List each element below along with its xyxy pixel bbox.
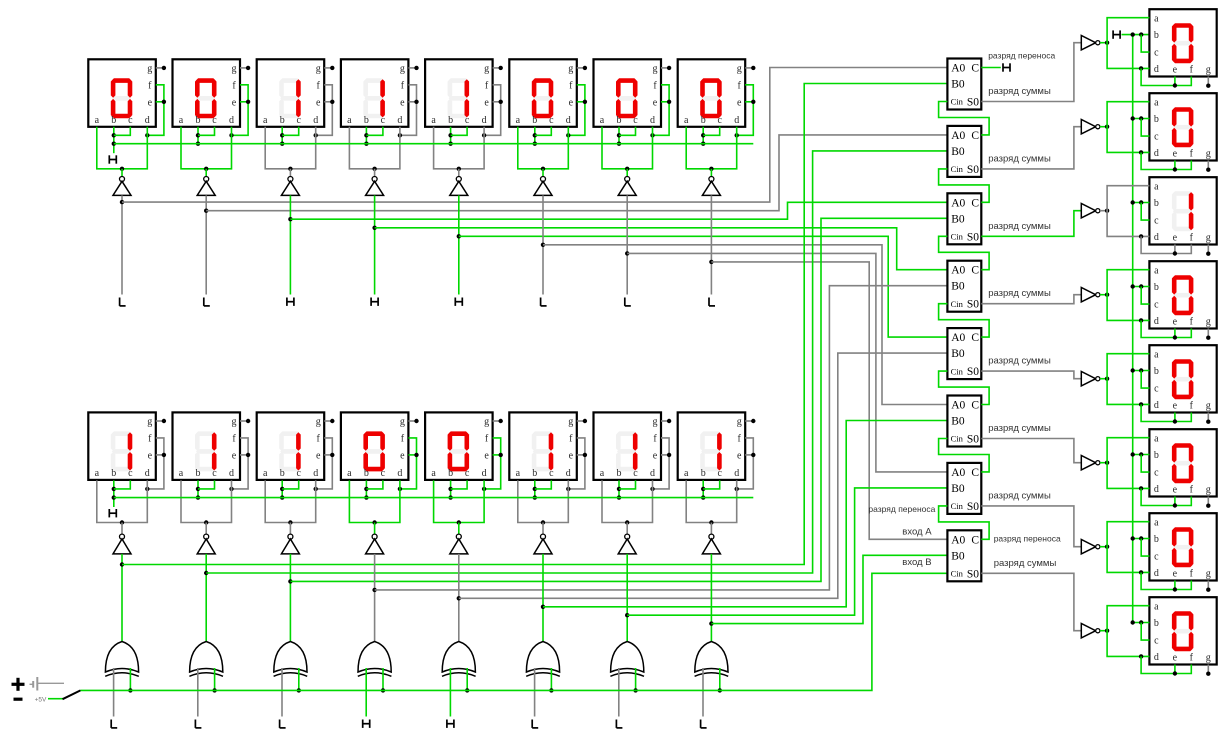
svg-text:e: e [1173,401,1178,412]
svg-text:c: c [633,115,638,126]
net: DS12 segments f/e to d [398,438,419,491]
svg-text:e: e [653,451,658,462]
wire: DS1 pin g stub [156,66,166,70]
svg-text:A0: A0 [951,332,965,344]
svg-text:разряд суммы: разряд суммы [988,423,1051,434]
wire: input A bit 0 from label to inverter U8 and bus [709,195,713,294]
svg-text:разряд переноса: разряд переноса [994,533,1061,543]
net: DS4 pin b to H bus, link b-c [364,127,383,146]
svg-text:c: c [549,468,554,479]
wire: label to XOR X8 left input [702,668,704,717]
svg-text:d: d [482,115,487,126]
label: constant L (input B bit 1) [616,720,622,728]
wire: +5V bus to XOR X8 right input [718,668,722,693]
svg-text:g: g [1206,485,1211,496]
wire: DS13 pin g stub [493,419,503,423]
inverter U2 (buffer to display DS2) [197,177,215,196]
svg-text:e: e [1173,65,1178,76]
wire: sum S0 of A2 to inverter U18 [981,127,1081,169]
net: DS3 pin b to H bus, link b-c [280,127,299,146]
net: DS23 pins e,f loop to d [1141,572,1191,591]
wire: DS15 pin g stub [661,419,671,423]
svg-text:B0: B0 [951,483,965,495]
net: DS10 pin b to H bus, link b-c [196,480,215,499]
net: DS1 segments f/e to d (pins f,e) [145,85,166,138]
svg-text:b: b [448,115,453,126]
svg-text:C: C [971,130,979,142]
wire: XOR X5 output up to inverter U13, tap to B bus [457,554,461,642]
adder A2 (1-bit full adder, bit 6) [947,126,981,177]
inverter U6 (buffer to display DS6) [534,177,552,196]
wire: input A bit 1 from label to inverter U7 and bus [625,195,629,294]
label: разряд суммы (adder A8 sum) [994,558,1057,569]
wire: DS17 pin g stub [1206,77,1210,88]
adder A6 (1-bit full adder, bit 2) [947,396,981,447]
wire: sum S0 of A8 to inverter U24 [981,573,1081,630]
net: DS16 pins a,d to inverter U16 output [686,480,737,534]
net: +5V bus to XOR right inputs and Cin of adder A8 [81,573,948,690]
net: inverter U19 output to DS19 pins a,d [1100,186,1150,239]
wire: A bus line bit 6 to adder A2 [206,135,947,211]
svg-text:d: d [1154,568,1159,579]
svg-text:B0: B0 [951,348,965,360]
svg-text:e: e [232,451,237,462]
svg-text:C: C [971,400,979,412]
svg-text:b: b [280,468,285,479]
label: constant H (input A bit 5) [287,298,294,306]
wire: input A bit 6 from label to inverter U2 and bus [204,195,208,294]
net: DS14 pin b to H bus, link b-c [533,480,552,499]
svg-text:b: b [1154,198,1159,209]
svg-text:a: a [1154,349,1159,360]
label: constant L (input B bit 6) [195,720,201,728]
label: constant L (input B bit 7) [111,720,117,728]
svg-text:a: a [1154,181,1159,192]
svg-text:b: b [111,115,116,126]
svg-text:b: b [280,115,285,126]
seven-segment display DS11 (bottom row, digit 1) [257,412,325,480]
net: DS1 pins a,d to inverter U1 output [97,127,148,177]
svg-text:c: c [1154,636,1159,647]
wire: carry C of A5 to Cin of A4 [939,304,990,337]
wire: DS11 pin g stub [324,419,334,423]
xor gate X5 [442,642,476,677]
label: разряд суммы (adder A5 sum) [988,356,1051,367]
wire: label to XOR X2 left input [197,668,199,717]
wire: DS2 pin g stub [240,66,250,70]
wire: sum S0 of A7 to inverter U23 [981,506,1081,547]
net: DS13 pins a,d to inverter U13 output [434,480,485,534]
svg-text:d: d [229,115,234,126]
net: DS6 pin b to H bus, link b-c [533,127,552,146]
svg-text:d: d [1154,232,1159,243]
wire: DS23 pin g stub [1206,581,1210,592]
svg-text:e: e [400,451,405,462]
inverter U22 (buffer to display DS22) [1081,456,1100,470]
seven-segment display DS15 (bottom row, digit 1) [594,412,662,480]
xor gate X1 [105,642,139,677]
svg-text:A0: A0 [951,197,965,209]
svg-text:разряд суммы: разряд суммы [988,221,1051,232]
net: DS15 pins a,d to inverter U15 output [602,480,653,534]
net: DS10 segments f/e to d [229,438,250,491]
svg-text:g: g [484,417,489,428]
wire: input A bit 5 from label to inverter U3 and bus [288,195,292,294]
net: inverter U21 output to DS21 pins a,d [1100,354,1150,407]
wire: DS6 pin g stub [577,66,587,70]
wire: input A bit 4 from label to inverter U4 and bus [372,195,376,294]
svg-text:B0: B0 [951,213,965,225]
svg-text:c: c [296,115,301,126]
svg-text:d: d [650,468,655,479]
svg-text:b: b [364,468,369,479]
wire: XOR X2 output up to inverter U10, tap to B bus [204,554,208,642]
svg-text:b: b [617,115,622,126]
wire: DS14 pin g stub [577,419,587,423]
svg-text:d: d [145,115,150,126]
inverter U3 (buffer to display DS3) [281,177,299,196]
svg-text:c: c [381,115,386,126]
net: DS14 pins a,d to inverter U14 output [518,480,569,534]
svg-text:B0: B0 [951,281,965,293]
svg-text:g: g [400,64,405,75]
svg-text:S0: S0 [967,164,979,176]
svg-text:S0: S0 [967,97,979,109]
wire: sum S0 of A3 to inverter U19 [981,211,1081,237]
adder A3 (1-bit full adder, bit 5) [947,193,981,244]
svg-text:a: a [95,468,100,479]
svg-text:S0: S0 [967,299,979,311]
svg-text:d: d [1154,64,1159,75]
label: разряд суммы (adder A7 sum) [988,490,1051,501]
inverter U16 (buffer to display DS16) [702,534,720,554]
net: DS5 pins a,d to inverter U5 output [434,127,485,177]
net: H bus to DS24 pin b, link b-c [1131,620,1150,640]
svg-text:a: a [1154,97,1159,108]
svg-text:Cin: Cin [951,569,964,579]
wire: DS24 pin g stub [1206,665,1210,676]
wire: DS22 pin g stub [1206,497,1210,508]
svg-text:B0: B0 [951,416,965,428]
svg-text:вход B: вход B [902,557,931,568]
net: DS5 pin b to H bus, link b-c [448,127,467,146]
net: DS11 segments f/e to d [314,438,335,491]
net: DS3 pins a,d to inverter U3 output [265,127,316,177]
seven-segment display DS9 (bottom row, digit 1) [88,412,156,480]
svg-text:c: c [549,115,554,126]
svg-text:g: g [147,64,152,75]
svg-text:e: e [148,97,153,108]
svg-text:d: d [734,468,739,479]
svg-text:d: d [650,115,655,126]
svg-text:C: C [971,265,979,277]
svg-text:C: C [971,467,979,479]
svg-text:e: e [484,97,489,108]
svg-text:b: b [1154,618,1159,629]
svg-text:g: g [316,64,321,75]
svg-text:c: c [465,468,470,479]
wire: A bus line bit 0 to adder A8 [711,262,947,539]
inverter U20 (buffer to display DS20) [1081,288,1100,302]
svg-text:b: b [1154,534,1159,545]
svg-text:a: a [684,468,689,479]
svg-text:a: a [179,115,184,126]
net: DS22 pins e,f loop to d [1141,488,1191,507]
label: constant H (input B bit 3) [447,720,454,728]
svg-text:A0: A0 [951,130,965,142]
net: DS4 pins a,d to inverter U4 output [349,127,400,177]
seven-segment display DS22 (result, digit 0) [1149,429,1216,496]
net: inverter U17 output to DS17 pins a,d [1100,18,1150,71]
svg-text:g: g [1206,653,1211,664]
battery BT1 (+5V source) [12,677,65,703]
svg-text:e: e [232,97,237,108]
wire: sum S0 of A6 to inverter U22 [981,439,1081,463]
svg-text:c: c [1154,300,1159,311]
net: DS18 pins e,f loop to d [1141,152,1191,171]
wire: label to XOR X3 left input [281,668,283,717]
net: DS19 pins e,f loop to d [1141,236,1191,255]
inverter U13 (buffer to display DS13) [450,534,468,554]
wire: B bus line bit 1 to adder B7 [627,488,947,615]
svg-text:d: d [397,468,402,479]
label: вход B [902,557,931,568]
svg-text:g: g [484,64,489,75]
svg-text:вход A: вход A [902,527,932,538]
wire: DS3 pin g stub [324,66,334,70]
label: constant H driving bottom display b segments [109,509,116,517]
net: DS16 pin b to H bus, link b-c [701,480,720,499]
wire: A bus line bit 1 to adder A7 [627,253,947,472]
svg-text:S0: S0 [967,434,979,446]
net: DS12 pin b to H bus, link b-c [364,480,383,499]
svg-text:g: g [232,64,237,75]
seven-segment display DS14 (bottom row, digit 1) [509,412,577,480]
svg-text:a: a [516,468,521,479]
svg-text:e: e [316,97,321,108]
inverter U5 (buffer to display DS5) [450,177,468,196]
svg-text:d: d [734,115,739,126]
svg-text:C: C [971,332,979,344]
svg-text:A0: A0 [951,467,965,479]
seven-segment display DS10 (bottom row, digit 1) [173,412,241,480]
net: DS24 pins e,f loop to d [1141,656,1191,675]
seven-segment display DS2 (top row, digit 0) [173,59,241,127]
wire: XOR X4 output up to inverter U12, tap to B bus [372,554,376,642]
svg-text:c: c [717,468,722,479]
seven-segment display DS13 (bottom row, digit 0) [425,412,493,480]
wire: XOR X8 output up to inverter U16, tap to B bus [709,554,713,642]
wire: DS20 pin g stub [1206,329,1210,340]
inverter U10 (buffer to display DS10) [197,534,215,554]
svg-text:b: b [1154,114,1159,125]
svg-text:разряд суммы: разряд суммы [988,288,1051,299]
wire: B bus line bit 0 to adder B8 [711,555,947,623]
svg-text:a: a [1154,433,1159,444]
inverter U12 (buffer to display DS12) [366,534,384,554]
svg-text:Cin: Cin [951,501,964,511]
label: разряд переноса (adder A1 carry) [988,51,1055,61]
svg-text:e: e [569,97,574,108]
svg-text:e: e [569,451,574,462]
svg-text:разряд суммы: разряд суммы [994,558,1057,569]
svg-text:g: g [1206,569,1211,580]
svg-text:A0: A0 [951,265,965,277]
svg-text:d: d [482,468,487,479]
inverter U8 (buffer to display DS8) [702,177,720,196]
seven-segment display DS17 (result, digit 0) [1149,9,1216,76]
net: inverter U22 output to DS22 pins a,d [1100,438,1150,491]
net: H bus to DS19 pin b, link b-c [1131,200,1150,220]
net: DS11 pins a,d to inverter U11 output [265,480,316,534]
svg-text:+5V: +5V [35,696,47,703]
wire: carry C of A6 to Cin of A5 [939,371,990,404]
inverter U24 (buffer to display DS24) [1081,624,1100,638]
adder A8 (1-bit full adder, bit 0) [947,530,981,581]
wire: B bus line bit 5 to adder B3 [290,218,947,581]
wire: sum S0 of A4 to inverter U20 [981,295,1081,304]
label: constant H driving right display b segments [1113,30,1120,38]
net: DS2 pin b to H bus, link b-c [196,127,215,146]
wire: carry out C of A1 to H flag [981,67,1001,69]
svg-text:A0: A0 [951,400,965,412]
svg-text:b: b [1154,282,1159,293]
svg-text:S0: S0 [967,568,979,580]
svg-text:d: d [1154,400,1159,411]
svg-text:d: d [1154,148,1159,159]
svg-text:g: g [1206,65,1211,76]
inverter U15 (buffer to display DS15) [618,534,636,554]
svg-text:a: a [1154,517,1159,528]
svg-text:e: e [737,97,742,108]
wire: DS5 pin g stub [493,66,503,70]
svg-text:B0: B0 [951,79,965,91]
net: DS15 segments f/e to d [650,438,671,491]
net: H bus for right displays (segment b/c common) [1132,35,1134,623]
svg-text:C: C [971,197,979,209]
wire: DS9 pin g stub [156,419,166,423]
wire: B bus line bit 3 to adder B5 [459,353,948,598]
inverter U11 (buffer to display DS11) [281,534,299,554]
net: DS20 pins e,f loop to d [1141,320,1191,339]
svg-text:c: c [212,468,217,479]
label: constant L (input A bit 2) [541,298,547,306]
svg-text:разряд переноса: разряд переноса [868,504,935,514]
svg-text:a: a [347,468,352,479]
adder A4 (1-bit full adder, bit 4) [947,261,981,312]
net: DS4 segments f/e to d (pins f,e) [398,85,419,138]
net: DS6 pins a,d to inverter U6 output [518,127,569,177]
seven-segment display DS23 (result, digit 0) [1149,513,1216,580]
svg-text:a: a [179,468,184,479]
svg-text:a: a [1154,265,1159,276]
svg-text:Cin: Cin [951,164,964,174]
svg-text:b: b [448,468,453,479]
net: DS13 segments f/e to d [482,438,503,491]
svg-text:d: d [1154,484,1159,495]
inverter U9 (buffer to display DS9) [113,534,131,554]
wire: XOR X1 output up to inverter U9, tap to B bus [120,554,124,642]
net: DS11 pin b to H bus, link b-c [280,480,299,499]
wire: +5V bus to XOR X6 right input [549,668,553,693]
seven-segment display DS12 (bottom row, digit 0) [341,412,409,480]
adder A7 (1-bit full adder, bit 1) [947,463,981,514]
net: H bus to DS23 pin b, link b-c [1131,536,1150,556]
svg-text:d: d [1154,316,1159,327]
wire: XOR X7 output up to inverter U15, tap to B bus [625,554,629,642]
wire: DS18 pin g stub [1206,161,1210,172]
svg-text:c: c [1154,384,1159,395]
inverter U19 (buffer to display DS19) [1081,204,1100,218]
net: DS6 segments f/e to d (pins f,e) [566,85,587,138]
label: разряд суммы (adder A4 sum) [988,288,1051,299]
xor gate X4 [358,642,392,677]
svg-text:e: e [148,451,153,462]
svg-text:g: g [653,417,658,428]
svg-text:b: b [364,115,369,126]
svg-text:e: e [1173,233,1178,244]
svg-text:g: g [232,417,237,428]
seven-segment display DS24 (result, digit 0) [1149,597,1216,664]
inverter U7 (buffer to display DS7) [618,177,636,196]
svg-text:a: a [1154,13,1159,24]
svg-text:e: e [1173,485,1178,496]
label: constant H (input B bit 4) [363,720,370,728]
svg-text:разряд суммы: разряд суммы [988,356,1051,367]
xor gate X7 [610,642,644,677]
label: разряд суммы (adder A1 sum) [988,86,1051,97]
svg-text:разряд переноса: разряд переноса [988,51,1055,61]
svg-text:S0: S0 [967,501,979,513]
net: DS3 segments f/e to d (pins f,e) [314,85,335,138]
svg-text:d: d [1154,652,1159,663]
label: constant L (input B bit 2) [532,720,538,728]
svg-text:g: g [737,64,742,75]
wire: DS8 pin g stub [745,66,755,70]
wire: input A bit 2 from label to inverter U6 and bus [541,195,545,294]
net: H bus (top row, segment b common) [114,143,754,145]
svg-text:d: d [145,468,150,479]
svg-text:d: d [313,115,318,126]
svg-text:c: c [296,468,301,479]
svg-text:Cin: Cin [951,434,964,444]
wire: label to XOR X4 left input [365,668,367,717]
wire: label to XOR X1 left input [113,668,115,717]
xor gate X6 [526,642,560,677]
svg-text:d: d [566,115,571,126]
svg-text:e: e [1173,149,1178,160]
svg-text:c: c [717,115,722,126]
net: DS9 pins a,d to inverter U9 output [97,480,148,534]
wire: DS16 pin g stub [745,419,755,423]
xor gate X3 [274,642,308,677]
wire: DS12 pin g stub [408,419,418,423]
net: H bus to DS22 pin b, link b-c [1131,452,1150,472]
wire: carry C of A8 to Cin of A7 [939,506,990,539]
seven-segment display DS18 (result, digit 0) [1149,93,1216,160]
label: constant L (input A bit 0) [709,298,715,306]
inverter U1 (buffer to display DS1) [113,177,131,196]
wire: carry C of A4 to Cin of A3 [939,236,990,269]
net: DS21 pins e,f loop to d [1141,404,1191,423]
svg-text:g: g [1206,233,1211,244]
wire: DS7 pin g stub [661,66,671,70]
seven-segment display DS7 (top row, digit 0) [594,59,662,127]
net: DS17 pins e,f loop to d [1141,68,1191,87]
svg-text:e: e [484,451,489,462]
svg-text:Cin: Cin [951,97,964,107]
svg-text:b: b [196,115,201,126]
